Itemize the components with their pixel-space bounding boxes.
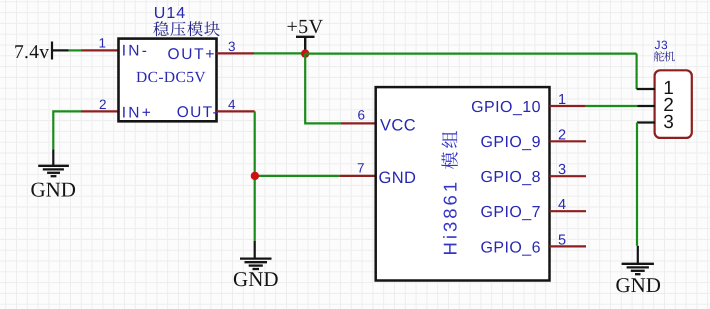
svg-text:7.4v: 7.4v <box>14 42 49 63</box>
svg-text:IN-: IN- <box>122 42 149 59</box>
wire 7.4v lead (black) <box>52 49 69 51</box>
ground GND (right) stem <box>637 246 639 263</box>
svg-text:6: 6 <box>358 108 366 123</box>
wire net +5V rail (green) <box>305 52 636 54</box>
svg-text:3: 3 <box>663 112 674 133</box>
svg-text:GPIO_6: GPIO_6 <box>480 239 541 256</box>
svg-text:GND: GND <box>233 267 279 291</box>
junction dot (+5V net) <box>301 49 309 57</box>
pin U14.1 IN- stub <box>82 49 119 51</box>
wire net 7.4v (green) <box>69 49 83 51</box>
voltage regulator module U14 box <box>119 39 217 122</box>
junction dot (GND net) <box>251 172 259 180</box>
svg-text:U14: U14 <box>154 5 186 22</box>
svg-text:4: 4 <box>228 97 236 112</box>
wire net IN+ to GND (green) <box>53 111 81 149</box>
svg-text:DC-DC5V: DC-DC5V <box>136 69 206 86</box>
svg-text:7: 7 <box>357 161 365 176</box>
pin Hi3861.6 VCC stub <box>341 122 376 124</box>
svg-text:4: 4 <box>558 197 566 213</box>
svg-text:VCC: VCC <box>380 116 416 134</box>
connector J3 body <box>655 70 692 138</box>
pin U14.4 OUT- stub <box>217 110 255 112</box>
connector J3 comment 舵机 <box>654 51 665 61</box>
svg-text:GPIO_7: GPIO_7 <box>480 204 541 221</box>
svg-text:GND: GND <box>379 169 417 187</box>
vertical label Hi3861 模组 <box>440 131 461 256</box>
svg-text:1: 1 <box>99 36 107 51</box>
svg-text:5: 5 <box>558 232 566 248</box>
svg-text:+5V: +5V <box>287 16 324 38</box>
pin Hi3861 GPIO_10 stub (pin 1) <box>550 105 586 107</box>
svg-text:J3: J3 <box>655 38 669 52</box>
power +5V bar symbol <box>296 37 315 51</box>
port 7.4v terminal bar <box>51 42 53 60</box>
pin Hi3861 GPIO_8 stub (pin 3) <box>550 175 587 177</box>
pin Hi3861 GPIO_6 stub (pin 5) <box>550 245 587 247</box>
svg-text:GPIO_9: GPIO_9 <box>480 134 541 151</box>
wire net +5V from OUT+ (green) <box>254 52 305 54</box>
wire net GPIO_10 to J3 pin2 (green) <box>585 105 638 107</box>
wire net GND: junction down to ground (green) <box>254 176 256 241</box>
ground GND (middle) stem <box>254 241 256 258</box>
pin J3.1 stub <box>637 88 655 90</box>
pin U14.3 OUT+ stub <box>217 52 255 54</box>
svg-text:IN+: IN+ <box>122 104 153 121</box>
svg-text:GND: GND <box>30 177 76 201</box>
svg-text:GPIO_8: GPIO_8 <box>480 169 541 186</box>
pin J3.3 stub <box>637 121 655 123</box>
ground GND (left) bars <box>38 166 69 176</box>
ground GND (left) stem <box>52 149 54 165</box>
svg-text:2: 2 <box>558 127 566 143</box>
pin Hi3861 GPIO_7 stub (pin 4) <box>550 210 587 212</box>
wire net J3 pin3 to ground (green) <box>636 123 638 246</box>
wire net +5V down to J3 pin1 (green) <box>635 54 637 89</box>
pin U14.2 IN+ stub <box>81 110 119 112</box>
svg-text:GPIO_10: GPIO_10 <box>471 99 541 116</box>
svg-text:2: 2 <box>99 97 107 112</box>
ground GND (right) bars <box>622 264 654 274</box>
wire net +5V down to VCC (green) <box>305 54 341 124</box>
pin J3.2 stub <box>638 105 656 107</box>
svg-text:1: 1 <box>558 92 566 108</box>
pin Hi3861 GPIO_9 stub (pin 2) <box>550 140 587 142</box>
svg-text:3: 3 <box>558 162 566 178</box>
comment label 稳压模块 <box>153 21 168 36</box>
pin Hi3861.7 GND stub <box>340 175 376 177</box>
wire net GND: OUT- down to junction (green) <box>254 111 256 175</box>
ground GND (middle) bars <box>240 259 272 269</box>
svg-text:OUT-: OUT- <box>177 104 219 121</box>
wire net GND: junction to Hi3861 GND pin (green) <box>255 175 340 177</box>
svg-text:Hi3861: Hi3861 <box>440 179 461 256</box>
Hi3861 module box <box>376 87 550 280</box>
svg-text:OUT+: OUT+ <box>168 46 217 63</box>
svg-text:3: 3 <box>228 39 236 54</box>
svg-text:GND: GND <box>615 273 661 297</box>
